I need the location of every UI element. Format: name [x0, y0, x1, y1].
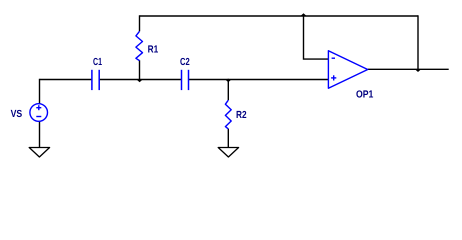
label VS	[11, 109, 23, 120]
wire R1 bottom lead	[139, 60, 141, 80]
wire op-amp output	[368, 68, 449, 70]
wire feedback right vertical	[417, 15, 419, 69]
wire C1 to C2	[99, 79, 181, 81]
node junction output	[415, 70, 421, 73]
wire inverting input branch	[304, 16, 329, 59]
ground (R2)	[218, 148, 238, 158]
svg-text:OP1: OP1	[356, 90, 374, 101]
node junction at R1	[137, 80, 143, 83]
resistor R1	[136, 31, 143, 60]
wire VS bottom lead	[39, 121, 41, 147]
op-amp OP1	[328, 51, 367, 89]
wire R2 bottom lead	[227, 129, 229, 148]
capacitor C1	[92, 70, 99, 90]
wire VS top lead	[39, 79, 41, 104]
label R1	[148, 45, 159, 56]
svg-text:R2: R2	[236, 110, 247, 121]
wire input to C1	[40, 79, 92, 81]
svg-text:R1: R1	[148, 45, 159, 56]
wire R2 top lead	[227, 79, 229, 100]
node junction at R2	[226, 80, 232, 83]
voltage source VS	[30, 104, 48, 122]
label OP1	[356, 90, 374, 101]
svg-text:C1: C1	[93, 57, 102, 68]
label R2	[236, 110, 247, 121]
label C1	[93, 57, 102, 68]
wire R1 top lead	[139, 15, 141, 31]
ground (VS)	[29, 148, 49, 158]
label C2	[180, 57, 190, 68]
capacitor C2	[182, 70, 189, 90]
resistor R2	[225, 100, 231, 129]
svg-text:C2: C2	[180, 57, 190, 68]
wire C2 to op-amp	[189, 79, 329, 81]
wire top feedback	[140, 15, 419, 17]
svg-text:VS: VS	[11, 109, 23, 120]
node junction top wire	[301, 13, 307, 16]
